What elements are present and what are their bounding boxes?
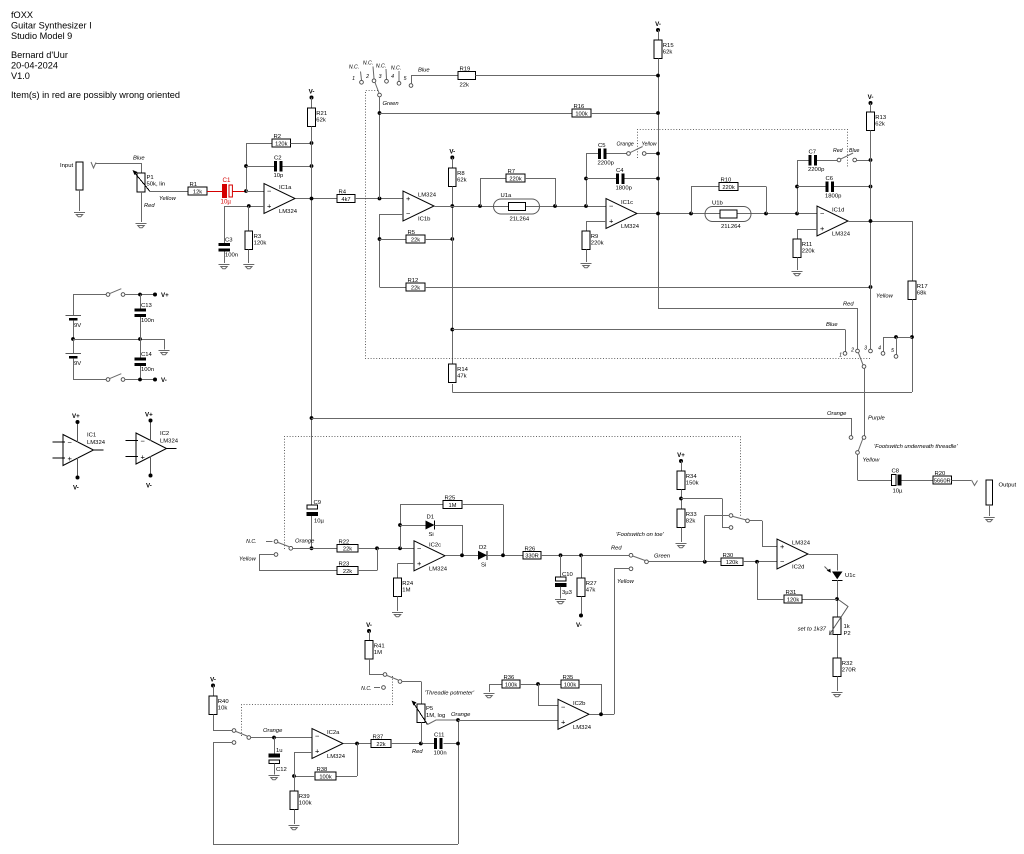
wire R5 to rail bbox=[425, 239, 452, 241]
junction feedback loop bbox=[456, 742, 460, 746]
wire C11 right bbox=[444, 743, 459, 745]
svg-text:R15: R15 bbox=[663, 43, 675, 49]
switch SW4 lever bbox=[387, 675, 399, 680]
svg-text:R3: R3 bbox=[254, 234, 262, 240]
svg-text:100n: 100n bbox=[141, 367, 154, 373]
svg-text:C8: C8 bbox=[892, 469, 900, 475]
svg-text:1k: 1k bbox=[844, 624, 850, 630]
wire R26 to Red contact bbox=[541, 555, 629, 557]
wire R35 right bbox=[579, 684, 601, 686]
wire down to C12 bbox=[274, 738, 276, 754]
wire R19 to R15 rail bbox=[476, 75, 659, 77]
ground bbox=[392, 613, 403, 617]
resistor R19 bbox=[458, 67, 476, 89]
junction R38 feedback bbox=[355, 742, 359, 746]
svg-text:P2: P2 bbox=[844, 631, 851, 637]
svg-text:Orange: Orange bbox=[451, 712, 471, 718]
wire Yellow contact to rail bbox=[646, 153, 658, 155]
ground bbox=[219, 265, 230, 269]
wire P5 bottom to C11 row bbox=[421, 723, 423, 744]
wire R27 to V- bbox=[581, 597, 583, 616]
capacitor C1 (red, possibly wrong oriented) bbox=[221, 177, 233, 206]
svg-text:V-: V- bbox=[73, 485, 79, 492]
wire R33 to ground bbox=[681, 528, 683, 543]
svg-text:P5: P5 bbox=[426, 706, 434, 712]
wire P5 wiper bbox=[428, 720, 459, 725]
svg-text:−: − bbox=[609, 202, 614, 211]
svg-text:Yellow: Yellow bbox=[239, 557, 257, 563]
wire to C6 bbox=[797, 186, 826, 188]
trimmer P2 bbox=[830, 600, 851, 637]
resistor R17 bbox=[908, 281, 927, 300]
contact power switch b right bbox=[121, 378, 125, 382]
contact Yellow (S2a) bbox=[642, 152, 646, 156]
capacitor C7 bbox=[808, 149, 825, 173]
contact S3-3 bbox=[869, 349, 873, 353]
svg-text:Purple: Purple bbox=[868, 416, 886, 422]
svg-text:IC1c: IC1c bbox=[621, 200, 633, 206]
junction P5 bottom bbox=[419, 742, 423, 746]
op-amp IC1c bbox=[606, 199, 640, 231]
wire C9 to switch row bbox=[311, 516, 313, 548]
junction C2 right bbox=[310, 164, 314, 168]
wire battery2 - bbox=[73, 359, 75, 380]
svg-text:IC2b: IC2b bbox=[573, 701, 586, 707]
contact SW2 pole bbox=[746, 519, 750, 523]
resistor R39 bbox=[290, 791, 311, 810]
wire Yellow contact left bbox=[614, 568, 629, 570]
wire gnd to R36 bbox=[489, 684, 502, 686]
svg-text:R40: R40 bbox=[218, 699, 230, 705]
svg-text:C11: C11 bbox=[434, 733, 444, 739]
svg-text:10k: 10k bbox=[218, 706, 228, 712]
contact S1-1 bbox=[360, 80, 364, 84]
resistor R1 bbox=[188, 182, 207, 195]
svg-text:Red: Red bbox=[412, 749, 423, 755]
wire R2 to V- rail bbox=[291, 143, 312, 145]
svg-text:Orange: Orange bbox=[263, 728, 283, 734]
svg-text:R39: R39 bbox=[299, 794, 310, 800]
svg-text:R17: R17 bbox=[917, 284, 928, 290]
junction D1 return bbox=[460, 553, 464, 557]
svg-text:R31: R31 bbox=[786, 590, 797, 596]
resistor R20 bbox=[933, 471, 952, 484]
svg-text:V-: V- bbox=[210, 677, 216, 684]
svg-text:−: − bbox=[267, 187, 272, 196]
svg-text:D1: D1 bbox=[427, 515, 435, 521]
power switch b lever bbox=[110, 374, 122, 379]
wire up to R7 bbox=[480, 178, 482, 206]
wire IC1d output right bbox=[849, 221, 913, 223]
wire to C5 bbox=[586, 153, 598, 155]
junction C2 left bbox=[244, 164, 248, 168]
svg-text:Orange: Orange bbox=[617, 142, 634, 148]
svg-text:3: 3 bbox=[379, 74, 382, 80]
svg-text:U1b: U1b bbox=[712, 201, 724, 207]
resistor R12 bbox=[406, 278, 425, 291]
wire to R2 bbox=[246, 143, 272, 145]
capacitor C6 bbox=[825, 176, 842, 200]
rotary switch S1 position ticks and contacts bbox=[361, 67, 400, 82]
wire feedback down bbox=[357, 744, 359, 777]
resistor R25 bbox=[443, 496, 462, 509]
svg-text:V+: V+ bbox=[72, 413, 80, 420]
wire upper contact left bbox=[705, 515, 730, 517]
svg-text:V-: V- bbox=[655, 21, 661, 28]
optocoupler U1b (21L264) bbox=[705, 201, 751, 231]
junction rail C5 row bbox=[656, 152, 660, 156]
power terminal V- (R40) bbox=[210, 677, 216, 688]
wire P2 to R32 bbox=[837, 635, 839, 658]
svg-text:V+: V+ bbox=[161, 292, 169, 299]
contact S3-1 bbox=[843, 352, 847, 356]
wire C12 to ground bbox=[274, 764, 276, 775]
wire V- to R21 bbox=[311, 98, 313, 109]
resistor R34 bbox=[677, 471, 698, 490]
wire V- to R8 bbox=[452, 158, 454, 169]
power terminal V- (R41) bbox=[366, 622, 372, 633]
wire R32 to ground bbox=[837, 677, 839, 692]
svg-text:1M: 1M bbox=[374, 650, 382, 656]
contact SW3 upper bbox=[232, 729, 236, 733]
wire contact 4 up bbox=[883, 337, 885, 352]
wire node down to C3 bbox=[224, 206, 226, 243]
svg-text:V+: V+ bbox=[677, 452, 685, 459]
wire R35 down to output bbox=[601, 684, 603, 714]
svg-text:R20: R20 bbox=[935, 471, 947, 477]
wire S1-5 up bbox=[411, 76, 413, 84]
wire jack to ground bbox=[79, 190, 81, 211]
svg-text:100k: 100k bbox=[319, 774, 331, 780]
svg-text:1: 1 bbox=[352, 76, 355, 82]
contact power switch a right bbox=[121, 293, 125, 297]
wire V+ to R34 bbox=[681, 461, 683, 471]
junction U1b left bbox=[689, 212, 693, 216]
op-amp power symbol IC1 bbox=[53, 413, 106, 492]
svg-text:R11: R11 bbox=[802, 242, 812, 248]
svg-text:R26: R26 bbox=[525, 547, 537, 553]
resistor R16 bbox=[572, 104, 591, 117]
svg-text:220k: 220k bbox=[591, 241, 604, 247]
power terminal V- (R8) bbox=[449, 149, 455, 160]
wire R11 to ground bbox=[797, 258, 799, 271]
wire R7 down bbox=[555, 178, 557, 206]
ground bbox=[243, 265, 254, 269]
contact SW4 N.C. bbox=[382, 686, 386, 690]
power terminal V- (battery) bbox=[153, 377, 167, 384]
svg-text:+: + bbox=[141, 453, 146, 462]
wire IC1b - left bbox=[380, 214, 404, 216]
wire R1 to C1 (red) bbox=[207, 191, 222, 193]
wire to C7 bbox=[797, 160, 809, 162]
wire R36 ground stem bbox=[489, 684, 491, 692]
svg-text:22k: 22k bbox=[343, 569, 352, 575]
resistor R36 bbox=[502, 675, 520, 688]
svg-text:R41: R41 bbox=[374, 644, 385, 650]
input jack J1 bbox=[76, 162, 83, 190]
wire contacts 4/5 to R17 rail bbox=[883, 337, 912, 339]
diode D1 bbox=[426, 515, 435, 539]
svg-text:Si: Si bbox=[429, 532, 434, 538]
svg-text:V-: V- bbox=[146, 483, 152, 490]
op-amp IC2c bbox=[414, 541, 448, 573]
resistor R37 bbox=[371, 735, 391, 748]
contact S1-2 bbox=[372, 79, 376, 83]
svg-text:U1a: U1a bbox=[501, 193, 513, 199]
wire Yellow down to IC2b out bbox=[614, 569, 616, 715]
switch S2a lever bbox=[630, 147, 642, 153]
junction R3 top bbox=[247, 204, 251, 208]
wire down to contact bbox=[722, 499, 724, 528]
contact SW4 upper bbox=[383, 673, 387, 677]
svg-text:C9: C9 bbox=[314, 500, 322, 506]
wire V- to R15 bbox=[658, 30, 660, 40]
junction C14 bottom bbox=[138, 378, 142, 382]
svg-text:R13: R13 bbox=[875, 115, 887, 121]
wire R38 left bbox=[294, 776, 315, 778]
LED U1c (optocoupler input) bbox=[825, 567, 856, 581]
contact S1-5 bbox=[409, 84, 413, 88]
wire R24 to ground bbox=[397, 597, 399, 612]
svg-text:R34: R34 bbox=[686, 474, 698, 480]
wire contact 5 up bbox=[896, 337, 898, 355]
wire D1 return down bbox=[462, 525, 464, 555]
svg-text:+: + bbox=[417, 559, 422, 568]
wire Red net long horizontal bbox=[658, 308, 858, 310]
svg-text:2200p: 2200p bbox=[598, 160, 615, 166]
wire IC2a output to R37 bbox=[344, 743, 372, 745]
svg-text:N.C.: N.C. bbox=[391, 66, 401, 72]
svg-text:2200p: 2200p bbox=[808, 167, 825, 173]
svg-text:'Threadle potmeter': 'Threadle potmeter' bbox=[425, 691, 475, 697]
svg-text:IC1a: IC1a bbox=[279, 185, 292, 191]
capacitor C2 bbox=[274, 155, 285, 179]
wire to contact bbox=[213, 730, 232, 732]
resistor R13 bbox=[867, 112, 887, 131]
capacitor C10 (electrolytic) bbox=[555, 572, 574, 596]
svg-text:R10: R10 bbox=[721, 178, 733, 184]
svg-text:−: − bbox=[820, 209, 825, 218]
wire R13 rail down to contact 3 bbox=[870, 131, 872, 350]
wire IC2c + left bbox=[398, 563, 415, 565]
junction IC1b output row bbox=[450, 204, 454, 208]
wire IC1c output to IC1d - bbox=[638, 213, 818, 215]
svg-text:N.C.: N.C. bbox=[361, 686, 371, 692]
svg-text:N.C.: N.C. bbox=[376, 64, 386, 70]
junction IC1d output bbox=[869, 219, 873, 223]
svg-text:3µ3: 3µ3 bbox=[562, 590, 573, 596]
svg-text:'Footswitch on toe': 'Footswitch on toe' bbox=[616, 532, 665, 538]
svg-text:10µ: 10µ bbox=[314, 519, 325, 525]
power terminal V+ (battery) bbox=[153, 292, 169, 299]
junction R16 bbox=[656, 111, 660, 115]
svg-text:270R: 270R bbox=[842, 668, 856, 674]
svg-text:LM324: LM324 bbox=[160, 439, 179, 445]
svg-text:82k: 82k bbox=[686, 519, 696, 525]
wire R31 left bbox=[757, 599, 784, 601]
wire C2 right bbox=[283, 166, 312, 168]
wire C10 to ground bbox=[560, 587, 562, 599]
wire to D1 bbox=[400, 525, 426, 527]
svg-text:U1c: U1c bbox=[845, 573, 856, 579]
wire IC1c + left bbox=[586, 221, 606, 223]
wire R8 down to R14 bbox=[452, 187, 454, 365]
svg-text:'Footswitch underneath threadl: 'Footswitch underneath threadle' bbox=[874, 444, 958, 450]
wire V- to R41 bbox=[369, 631, 371, 641]
wire to IC2a + bbox=[294, 752, 312, 754]
junction R16 tap bbox=[378, 111, 382, 115]
svg-text:Guitar Synthesizer I: Guitar Synthesizer I bbox=[11, 21, 92, 31]
wire R14 bottom bbox=[452, 384, 454, 392]
svg-text:Yellow: Yellow bbox=[642, 142, 658, 148]
svg-text:Studio Model 9: Studio Model 9 bbox=[11, 31, 72, 41]
junction C1/IC1a- node bbox=[244, 189, 248, 193]
svg-text:47k: 47k bbox=[586, 588, 596, 594]
wire Yellow down bbox=[259, 555, 261, 571]
junction R31 bbox=[835, 597, 839, 601]
wire to R31 bbox=[802, 599, 837, 601]
svg-text:V-: V- bbox=[868, 94, 874, 101]
svg-text:C4: C4 bbox=[616, 168, 624, 174]
wire Red down to contact 2 bbox=[857, 308, 859, 349]
junction C10 top bbox=[559, 553, 563, 557]
svg-text:1800p: 1800p bbox=[825, 193, 842, 199]
wire down to P5 bbox=[421, 682, 423, 705]
dotted mechanical gang link box 3 bbox=[285, 437, 741, 550]
junction R19 bbox=[656, 74, 660, 78]
junction IC1a output bbox=[310, 197, 314, 201]
svg-text:120k: 120k bbox=[254, 241, 267, 247]
power terminal V- (R27) bbox=[576, 614, 583, 630]
svg-text:−: − bbox=[141, 436, 146, 445]
contact power switch b bbox=[106, 378, 110, 382]
resistor R24 bbox=[394, 578, 414, 597]
wire C4 to rail bbox=[625, 178, 659, 180]
svg-text:62k: 62k bbox=[457, 178, 467, 184]
svg-text:1u: 1u bbox=[276, 748, 283, 754]
op-amp IC2d bbox=[777, 539, 811, 571]
svg-text:10p: 10p bbox=[274, 173, 285, 179]
diode D2 bbox=[478, 545, 487, 569]
contact SW Yellow bbox=[274, 553, 278, 557]
ground bbox=[289, 826, 300, 830]
contact SW3 pole bbox=[247, 736, 251, 740]
svg-text:2: 2 bbox=[850, 348, 854, 354]
svg-text:150k: 150k bbox=[686, 481, 699, 487]
svg-text:22k: 22k bbox=[376, 742, 385, 748]
wire feedback loop right bbox=[458, 720, 460, 844]
wire pole to IC2a - bbox=[251, 737, 313, 739]
svg-text:C5: C5 bbox=[598, 143, 606, 149]
wire C13 bottom bbox=[140, 317, 142, 339]
svg-text:47k: 47k bbox=[457, 374, 467, 380]
junction C7/C6 branch bbox=[795, 212, 799, 216]
wire pole to R22 bbox=[293, 548, 338, 550]
wire IC1b output to IC1c - bbox=[435, 206, 607, 208]
wire Purple pole down bbox=[864, 368, 866, 435]
resistor R30 bbox=[721, 553, 743, 566]
svg-text:120k: 120k bbox=[726, 560, 738, 566]
contact S3 pole bbox=[862, 365, 866, 369]
svg-text:−: − bbox=[417, 544, 422, 553]
wire R12 to switch rail (long) bbox=[425, 287, 871, 289]
junction C5/C4 branch bbox=[584, 204, 588, 208]
ground bbox=[581, 264, 592, 268]
wire lower contact left bbox=[213, 742, 232, 744]
svg-text:R12: R12 bbox=[408, 278, 419, 284]
wire up to IC2a + bbox=[294, 752, 296, 776]
wire node to IC1a inverting input bbox=[246, 191, 264, 193]
capacitor C4 bbox=[616, 168, 633, 192]
svg-text:R24: R24 bbox=[402, 581, 414, 587]
wire to R25 bbox=[400, 504, 443, 506]
resistor R33 bbox=[677, 509, 697, 528]
svg-text:100n: 100n bbox=[225, 253, 238, 259]
N.C. stub bbox=[266, 541, 273, 543]
jack tip contact bbox=[91, 162, 96, 168]
svg-text:62k: 62k bbox=[875, 122, 885, 128]
ground bbox=[136, 224, 147, 228]
svg-text:Yellow: Yellow bbox=[876, 294, 894, 300]
svg-text:R22: R22 bbox=[339, 540, 350, 546]
battery B1 9V bbox=[66, 316, 82, 330]
contact SW3 lower bbox=[232, 741, 236, 745]
wire Blue contact to rail bbox=[856, 160, 870, 162]
svg-text:1M: 1M bbox=[402, 588, 410, 594]
wire Orange down to contact bbox=[851, 418, 853, 436]
wire battery1 - bbox=[73, 321, 75, 339]
svg-text:Red: Red bbox=[611, 546, 622, 552]
wire LED to P2 bbox=[837, 580, 839, 617]
svg-text:Green: Green bbox=[383, 101, 399, 107]
wire R31 up to IC2d - node bbox=[757, 562, 759, 599]
wire down to LED bbox=[837, 554, 839, 571]
wire R25 right bbox=[462, 504, 503, 506]
wire to ground bbox=[164, 339, 166, 350]
wire to C2 bbox=[246, 166, 274, 168]
svg-text:100k: 100k bbox=[575, 111, 587, 117]
switch S3 lever bbox=[858, 353, 863, 365]
contact SW4 pole bbox=[398, 680, 402, 684]
ground bbox=[676, 544, 687, 548]
svg-text:100k: 100k bbox=[299, 801, 312, 807]
wire to lower contact bbox=[722, 527, 729, 529]
power terminal V+ (R34) bbox=[677, 452, 685, 463]
svg-text:330R: 330R bbox=[525, 554, 539, 560]
svg-text:+: + bbox=[315, 747, 320, 756]
svg-text:4: 4 bbox=[878, 346, 881, 352]
svg-text:9V: 9V bbox=[74, 361, 81, 367]
svg-text:R25: R25 bbox=[445, 496, 457, 502]
contact S1-4 bbox=[397, 81, 401, 85]
resistor R40 bbox=[209, 696, 229, 715]
junction Orange takeoff bbox=[310, 416, 314, 420]
resistor R15 bbox=[654, 40, 674, 59]
svg-text:220k: 220k bbox=[509, 176, 521, 182]
ground bbox=[484, 694, 495, 698]
svg-text:R37: R37 bbox=[373, 735, 384, 741]
wire C6 to rail bbox=[834, 186, 871, 188]
contact SW2 lower bbox=[729, 526, 733, 530]
ground bbox=[159, 351, 170, 355]
wire divider to switch bbox=[681, 498, 722, 500]
junction R35 return bbox=[599, 712, 603, 716]
resistor R11 bbox=[793, 239, 814, 258]
junction rail C7 row bbox=[869, 158, 873, 162]
wire V- to R13 bbox=[870, 103, 872, 112]
svg-text:100k: 100k bbox=[505, 682, 517, 688]
svg-text:LM324: LM324 bbox=[418, 193, 437, 199]
